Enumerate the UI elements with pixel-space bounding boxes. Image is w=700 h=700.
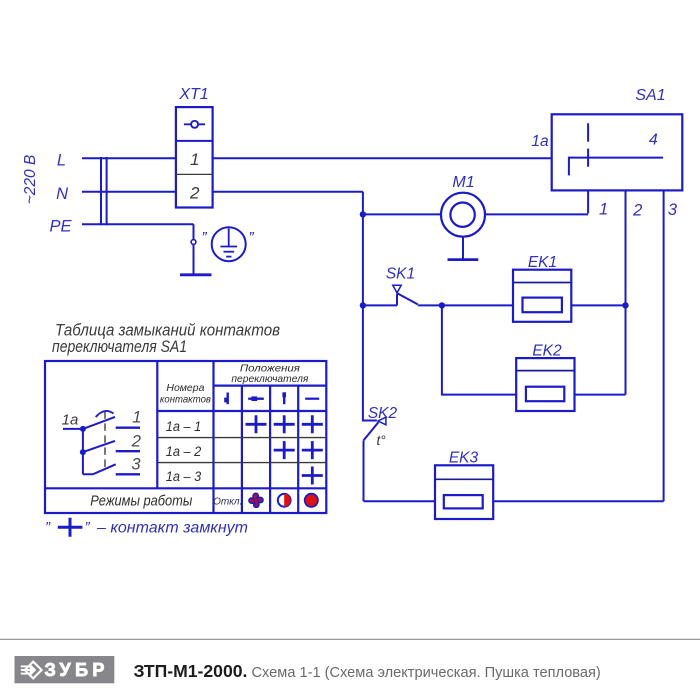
- motor M1: [441, 193, 485, 237]
- svg-text:3: 3: [668, 201, 678, 219]
- svg-text:~220 В: ~220 В: [22, 155, 39, 205]
- junction dot contact1: [80, 426, 86, 432]
- position icon 1: [224, 393, 228, 405]
- EK3 divider: [435, 478, 493, 480]
- PE connection circle: [191, 240, 196, 245]
- fixed contact 3: [116, 473, 140, 475]
- wire L left segment: [82, 157, 176, 159]
- svg-text:L: L: [57, 152, 66, 170]
- svg-text:переключателя SA1: переключателя SA1: [52, 337, 187, 356]
- junction dot SK1 left: [360, 302, 366, 308]
- wire N segment to trunk: [213, 191, 363, 193]
- table dark row separators: [157, 438, 326, 463]
- position icon 4: [305, 398, 319, 400]
- SK1 triangle: [393, 285, 401, 293]
- svg-text:ЗТП-М1-2000.: ЗТП-М1-2000.: [134, 661, 248, 681]
- svg-text:1а – 1: 1а – 1: [166, 419, 202, 434]
- earth symbol circle: [212, 227, 246, 261]
- svg-text:Номера: Номера: [166, 382, 204, 394]
- wire N left segment: [82, 191, 176, 193]
- svg-text:SK2: SK2: [368, 405, 398, 422]
- svg-text:EK2: EK2: [532, 343, 562, 360]
- svg-text:Режимы работы: Режимы работы: [90, 493, 192, 510]
- svg-text:1а – 2: 1а – 2: [166, 444, 202, 459]
- cable mark line 1: [100, 157, 102, 225]
- heater EK2: [442, 305, 626, 411]
- blade contact 3: [83, 464, 116, 474]
- svg-text:контактов: контактов: [160, 394, 211, 406]
- switch common wire: [63, 428, 83, 430]
- table grid blue lines: [45, 361, 326, 513]
- junction dot contact2: [80, 449, 86, 455]
- svg-text:1a: 1a: [531, 133, 549, 150]
- svg-text:2: 2: [189, 184, 200, 203]
- switch SA1 box: [552, 114, 683, 190]
- svg-text:1: 1: [132, 409, 141, 427]
- SA1 pin 1 wire: [587, 190, 589, 213]
- ground bar PE: [180, 273, 212, 276]
- svg-text:XT1: XT1: [178, 86, 208, 103]
- svg-text:3: 3: [131, 456, 141, 474]
- plus marks row 2: [274, 441, 323, 459]
- cable mark line 2: [106, 157, 108, 225]
- SA1 dashed axis: [587, 123, 589, 167]
- svg-text:ЗУБР: ЗУБР: [45, 660, 109, 680]
- svg-text:M1: M1: [452, 174, 474, 191]
- svg-text:PE: PE: [49, 218, 72, 236]
- blade contact 2: [83, 441, 115, 452]
- mechanical link dashed: [104, 411, 106, 467]
- terminal block XT1: [176, 107, 213, 207]
- plus marks row 1: [246, 415, 323, 433]
- blade contact 1: [83, 417, 115, 429]
- svg-text:Откл.: Откл.: [213, 497, 242, 508]
- SA1 pin 2 wire: [625, 190, 627, 394]
- wire L middle segment to SA1: [213, 157, 552, 159]
- svg-text:переключателя: переключателя: [231, 373, 308, 385]
- junction dot pin2 EK1: [622, 302, 628, 308]
- svg-text:t°: t°: [377, 433, 387, 448]
- trunk N vertical: [362, 192, 364, 306]
- motor ground: [462, 237, 464, 260]
- footer logo box: [15, 656, 115, 683]
- junction dot EK branch: [439, 302, 445, 308]
- svg-text:– контакт замкнут: – контакт замкнут: [96, 520, 248, 537]
- svg-text:N: N: [56, 185, 68, 203]
- svg-text:1а – 3: 1а – 3: [166, 469, 202, 484]
- rotation arc: [96, 411, 114, 417]
- footer separator: [0, 638, 700, 640]
- mode full circle: [305, 494, 318, 507]
- logo emblem diamond: [21, 662, 42, 679]
- heater EK1: [513, 270, 626, 322]
- SA1 wiper: [569, 158, 663, 176]
- svg-text:1а: 1а: [62, 412, 79, 429]
- fixed contact 2: [116, 450, 140, 452]
- svg-text:EK1: EK1: [528, 254, 557, 271]
- heater EK3: [364, 465, 664, 519]
- position icon 3: [282, 392, 286, 404]
- fixed contact 1: [116, 427, 140, 429]
- plus mark row 3: [302, 467, 323, 485]
- wire motor row: [363, 213, 588, 215]
- svg-text:2: 2: [632, 202, 642, 220]
- svg-text:2: 2: [131, 433, 141, 451]
- svg-text:1: 1: [599, 201, 608, 219]
- XT1 top cell circle symbol: [184, 121, 205, 128]
- switch trunk: [82, 429, 84, 474]
- mode fan icon: [249, 493, 263, 507]
- position icon 2: [248, 396, 264, 401]
- wire PE drop to ground: [193, 224, 195, 274]
- svg-text:SK1: SK1: [386, 266, 415, 283]
- SA1 pin 3 wire: [663, 190, 665, 501]
- XT1 divider 1-2: [176, 173, 213, 175]
- svg-text:4: 4: [649, 132, 658, 149]
- legend plus: [58, 518, 83, 537]
- svg-text:SA1: SA1: [635, 87, 665, 104]
- wire PE segment: [82, 223, 194, 225]
- svg-text:Схема 1-1 (Схема электрическая: Схема 1-1 (Схема электрическая. Пушка те…: [252, 665, 601, 681]
- junction dot motor row: [360, 211, 366, 217]
- thermal switch SK1: [363, 293, 513, 305]
- svg-text:1: 1: [190, 150, 199, 169]
- EK2 divider: [516, 370, 574, 372]
- SK2 triangle: [378, 417, 386, 425]
- mode half circle: [278, 494, 291, 507]
- thermal switch SK2: [363, 305, 379, 501]
- svg-text:EK3: EK3: [449, 450, 479, 467]
- EK1 divider: [513, 282, 571, 284]
